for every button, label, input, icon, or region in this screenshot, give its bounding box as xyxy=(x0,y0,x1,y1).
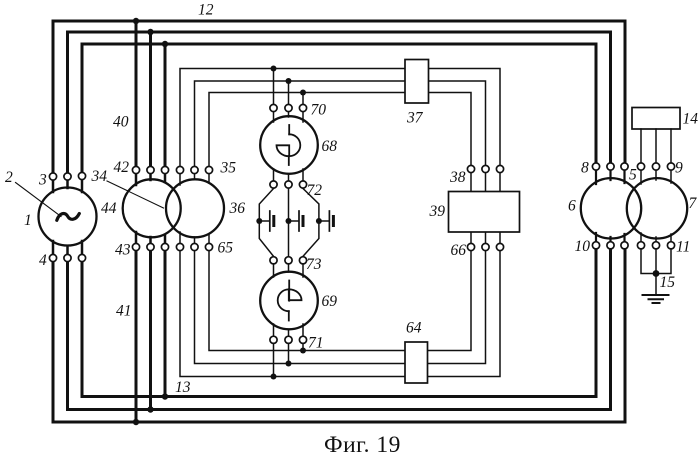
svg-text:65: 65 xyxy=(218,240,234,257)
leader line for label 2 xyxy=(16,183,62,217)
block 37 white box over buses xyxy=(405,60,429,104)
junction ground node xyxy=(653,270,660,277)
wire generator 1 top leads node 3 xyxy=(53,176,82,192)
wire leads from 42/35 terminals into machines 34 and 36 xyxy=(136,170,165,185)
wire thin inner loop top bus c xyxy=(209,93,471,171)
svg-text:36: 36 xyxy=(229,200,246,217)
battery branch middle wire xyxy=(288,189,290,257)
machine 36 circle xyxy=(166,179,224,237)
battery cell B1 xyxy=(259,211,274,231)
terminal circles xyxy=(49,104,674,343)
svg-text:42: 42 xyxy=(114,159,130,176)
terminals node 66 xyxy=(467,243,474,250)
terminals node 73 xyxy=(270,257,277,264)
block 14 box xyxy=(632,108,680,130)
junction thin top bus a xyxy=(271,66,277,72)
terminals node 43 xyxy=(132,243,139,250)
svg-text:68: 68 xyxy=(322,138,338,155)
wire thin inner loop bottom bus a xyxy=(209,247,471,351)
terminals node 71 xyxy=(270,336,277,343)
terminals node 35 xyxy=(176,166,183,173)
phase shifter 68 inner symbol xyxy=(277,125,301,165)
svg-text:72: 72 xyxy=(307,182,323,199)
machine 7 circle xyxy=(627,178,687,238)
wire leads from machines 34/36 to 43/65 terminals xyxy=(136,232,165,247)
svg-text:70: 70 xyxy=(311,102,327,119)
junction thin bottom bus a xyxy=(300,348,306,354)
terminals node 42 xyxy=(132,166,139,173)
wire leads machine 6 bottom node 10 and machine 7 leads xyxy=(641,167,671,246)
wire 71 group droppers xyxy=(274,340,304,377)
block 39 box xyxy=(449,192,520,233)
wire generator 1 bottom leads node 4 xyxy=(53,241,82,258)
svg-text:35: 35 xyxy=(220,160,237,177)
svg-text:64: 64 xyxy=(406,320,422,337)
battery branch right wire xyxy=(303,189,319,257)
wire 70 group risers xyxy=(274,69,304,109)
svg-text:5: 5 xyxy=(629,167,637,184)
svg-text:Фиг. 19: Фиг. 19 xyxy=(324,432,401,456)
svg-text:34: 34 xyxy=(91,168,108,185)
svg-text:8: 8 xyxy=(581,160,589,177)
terminals node 9 xyxy=(637,163,644,170)
terminals node 72 xyxy=(270,181,277,188)
svg-text:39: 39 xyxy=(429,203,446,220)
wire 40 group thick drops to transformer 34 xyxy=(136,21,165,170)
generator G1 circle xyxy=(39,188,97,246)
machine 6 circle xyxy=(581,178,641,238)
wire thin inner loop top bus a xyxy=(180,69,500,171)
battery branch left wire xyxy=(259,189,273,257)
wire thin inner loop top bus b xyxy=(195,81,486,170)
wire leads from 35 terminals into machine 36 xyxy=(180,170,209,185)
junction battery B2 xyxy=(286,218,292,224)
svg-text:13: 13 xyxy=(175,379,191,396)
wire loop B middle thick bus xyxy=(68,32,611,410)
svg-text:38: 38 xyxy=(449,169,466,186)
ground symbol 15 xyxy=(643,295,669,303)
wire loop A outer thick bus 12 xyxy=(53,21,625,422)
svg-text:6: 6 xyxy=(568,198,576,215)
battery cell B3 xyxy=(319,211,334,231)
block 39 leads top 38 and bottom 66 xyxy=(471,169,500,247)
svg-text:11: 11 xyxy=(676,239,690,256)
svg-text:15: 15 xyxy=(660,274,676,291)
wire 43 group thick drops to bottom buses xyxy=(136,247,165,422)
phase shifter 69 inner symbol (rotated copy of 68) xyxy=(278,281,302,321)
junction thin bottom bus c xyxy=(271,374,277,380)
block 64 white box over buses xyxy=(405,342,428,383)
junction battery B3 xyxy=(316,218,322,224)
svg-text:37: 37 xyxy=(406,110,424,127)
phase shifter 69 circle xyxy=(260,272,318,330)
generator G1 AC tilde symbol xyxy=(57,214,80,221)
wire thin inner loop bottom bus c xyxy=(180,247,500,377)
junction on bottom bus C xyxy=(162,393,168,399)
svg-text:40: 40 xyxy=(113,114,129,131)
terminals node 38 xyxy=(467,165,474,172)
leader line for label 34 xyxy=(107,181,164,208)
junction on bottom bus A xyxy=(133,419,139,425)
svg-text:69: 69 xyxy=(322,293,338,310)
phase shifter 68 leads xyxy=(274,108,304,185)
junction on bottom bus B xyxy=(147,406,153,412)
svg-text:44: 44 xyxy=(101,200,117,217)
terminals node 4 xyxy=(49,254,56,261)
wire leads from machine 36 to 65 terminals xyxy=(180,232,209,247)
battery cell B2 xyxy=(289,211,304,231)
phase shifter 68 circle xyxy=(260,116,318,174)
terminals node 8 xyxy=(592,163,599,170)
wire leads machine 6 top node 8 xyxy=(596,170,625,184)
phase shifter 69 leads xyxy=(274,260,304,340)
junction thin top bus c xyxy=(300,90,306,96)
svg-text:4: 4 xyxy=(39,252,47,269)
machine 34 circle xyxy=(123,179,181,237)
svg-text:73: 73 xyxy=(306,256,322,273)
svg-text:3: 3 xyxy=(38,172,47,189)
junction battery B1 xyxy=(256,218,262,224)
svg-text:71: 71 xyxy=(308,335,324,352)
svg-text:7: 7 xyxy=(689,195,698,212)
svg-text:12: 12 xyxy=(198,2,214,19)
terminals node 11 xyxy=(637,242,644,249)
svg-text:10: 10 xyxy=(575,238,591,255)
svg-text:1: 1 xyxy=(24,212,32,229)
junction thin top bus b xyxy=(286,78,292,84)
wire node 11 to ground junction xyxy=(641,249,671,295)
terminals node 70 xyxy=(270,104,277,111)
terminals node 10 xyxy=(592,242,599,249)
svg-text:41: 41 xyxy=(116,303,132,320)
junction on top bus C xyxy=(162,41,168,47)
svg-text:43: 43 xyxy=(115,242,131,259)
wire thin inner loop bottom bus b xyxy=(195,247,486,364)
svg-text:66: 66 xyxy=(451,242,467,259)
wire leads machine 6 bottom node 10 xyxy=(596,233,625,245)
junction on top bus B xyxy=(147,29,153,35)
wire loop C inner thick bus xyxy=(82,44,596,397)
svg-text:2: 2 xyxy=(5,169,13,186)
junction thin bottom bus b xyxy=(286,361,292,367)
svg-text:14: 14 xyxy=(683,111,699,128)
wire leads from block 14 to machine 7 node 9 xyxy=(641,129,671,167)
svg-text:9: 9 xyxy=(675,160,683,177)
terminals node 65 xyxy=(176,243,183,250)
terminals node 3 xyxy=(49,173,56,180)
junction on top bus A xyxy=(133,18,139,24)
